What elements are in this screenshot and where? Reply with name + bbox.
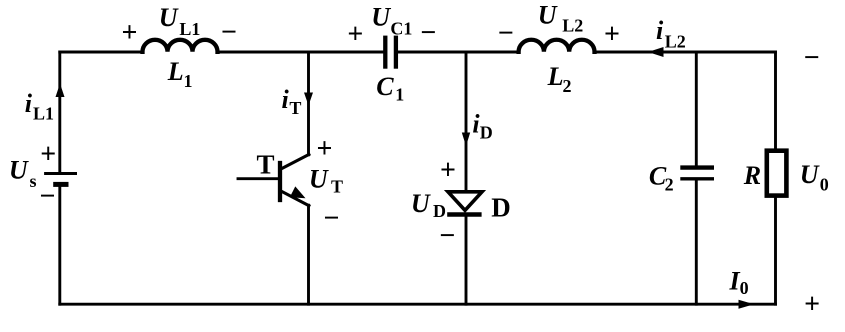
- wire top middle C1 to L2: [398, 51, 519, 54]
- svg-text:U: U: [309, 165, 329, 194]
- svg-text:−: −: [804, 43, 820, 74]
- wire C2 branch bottom: [695, 180, 698, 304]
- label U_T: [309, 165, 343, 197]
- svg-text:+: +: [317, 133, 333, 164]
- svg-text:+: +: [40, 139, 56, 170]
- svg-text:U: U: [9, 155, 29, 184]
- label i_L2: [656, 16, 686, 51]
- inductor L2: [519, 40, 595, 52]
- svg-text:i: i: [656, 16, 664, 45]
- label U_0: [800, 160, 829, 194]
- battery Us short plate: [53, 182, 68, 187]
- diode D triangle: [448, 192, 482, 211]
- svg-text:C: C: [376, 72, 394, 101]
- transistor T base bar: [278, 163, 282, 200]
- wire right vertical above resistor: [774, 52, 777, 151]
- capacitor C2 bottom plate: [680, 177, 714, 180]
- svg-text:1: 1: [184, 71, 193, 91]
- transistor T base lead: [238, 177, 280, 180]
- label C_2: [649, 162, 674, 195]
- label U_L1: [159, 3, 201, 39]
- capacitor C2 top plate: [680, 165, 714, 169]
- resistor R box: [767, 151, 787, 196]
- svg-text:2: 2: [563, 76, 572, 96]
- svg-text:U: U: [800, 160, 820, 189]
- svg-text:−: −: [439, 221, 455, 252]
- wire diode anode vertical: [465, 52, 468, 191]
- label i_D: [472, 109, 492, 142]
- label i_T: [282, 85, 302, 118]
- label L_1: [167, 57, 193, 91]
- svg-text:+: +: [804, 289, 820, 320]
- svg-text:T: T: [331, 177, 343, 197]
- arrow i_L1 up: [56, 84, 65, 98]
- svg-text:L: L: [547, 62, 564, 91]
- svg-text:+: +: [440, 155, 456, 186]
- svg-text:L2: L2: [665, 32, 686, 52]
- svg-text:D: D: [433, 201, 446, 221]
- transistor T emitter arrow: [290, 186, 306, 198]
- svg-text:s: s: [30, 171, 37, 191]
- capacitor C1: [385, 36, 396, 69]
- wire top right L2 to corner: [595, 51, 776, 54]
- wire transistor collector vertical: [307, 52, 310, 155]
- label i_L1: [25, 89, 54, 124]
- transistor T collector diagonal: [282, 155, 309, 169]
- svg-text:−: −: [40, 181, 56, 212]
- svg-text:L1: L1: [33, 104, 54, 124]
- arrow I_0 right: [739, 300, 755, 309]
- svg-text:2: 2: [665, 175, 674, 195]
- svg-text:C1: C1: [390, 18, 412, 38]
- wire C2 branch top: [695, 52, 698, 167]
- battery Us long plate: [44, 172, 77, 175]
- label U_D: [411, 189, 446, 221]
- label I_0: [729, 266, 749, 298]
- svg-text:U: U: [159, 3, 179, 32]
- wire bottom horizontal: [60, 303, 776, 306]
- wire right vertical below resistor: [774, 196, 777, 305]
- transistor T emitter diagonal: [282, 192, 309, 206]
- svg-text:D: D: [480, 123, 493, 143]
- svg-text:L: L: [167, 57, 184, 86]
- arrow i_T down: [304, 93, 313, 106]
- wire top middle L1 to C1: [218, 51, 384, 54]
- svg-text:+: +: [122, 18, 138, 49]
- inductor L1: [143, 40, 218, 52]
- svg-text:−: −: [498, 18, 514, 49]
- wire diode cathode vertical: [465, 215, 468, 305]
- arrow i_D down: [462, 133, 470, 147]
- svg-text:T: T: [257, 150, 275, 180]
- wire top-left horizontal: [60, 51, 143, 54]
- svg-text:0: 0: [740, 278, 749, 298]
- label U_C1: [371, 2, 412, 38]
- svg-text:+: +: [604, 19, 620, 50]
- svg-text:T: T: [289, 98, 301, 118]
- label U_s: [9, 155, 37, 191]
- svg-text:−: −: [221, 17, 237, 48]
- svg-text:i: i: [25, 89, 33, 118]
- svg-text:U: U: [411, 189, 431, 218]
- wire transistor emitter vertical: [307, 205, 310, 304]
- svg-text:i: i: [282, 85, 290, 114]
- svg-text:L2: L2: [562, 15, 583, 35]
- wire below battery: [58, 187, 61, 305]
- wire left vertical source branch: [58, 52, 61, 174]
- svg-text:L1: L1: [179, 19, 200, 39]
- svg-text:0: 0: [820, 174, 829, 194]
- svg-text:−: −: [324, 203, 340, 234]
- svg-text:1: 1: [395, 85, 404, 105]
- label L_2: [547, 62, 572, 96]
- arrow i_L2 left: [648, 47, 664, 57]
- svg-text:R: R: [743, 161, 761, 190]
- svg-text:+: +: [347, 19, 363, 50]
- diode D cathode bar: [447, 212, 481, 216]
- label U_L2: [538, 0, 583, 35]
- svg-text:U: U: [371, 2, 391, 31]
- svg-text:D: D: [491, 193, 511, 223]
- svg-text:−: −: [420, 17, 436, 48]
- label C_1: [376, 72, 404, 105]
- svg-text:U: U: [538, 0, 558, 29]
